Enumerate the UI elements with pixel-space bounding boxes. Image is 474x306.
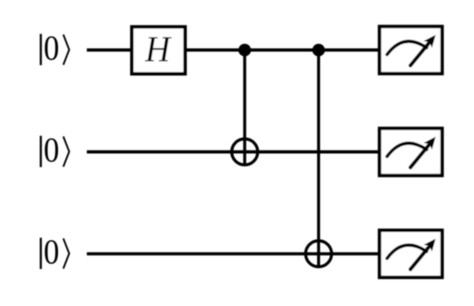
CNOT2 target circle on q2	[306, 241, 332, 267]
control dot CNOT2 on q0	[312, 44, 325, 57]
vertical wire CNOT1 (q0 to q1)	[243, 50, 246, 166]
H gate letter H	[145, 37, 172, 61]
wire q0 right segment	[184, 48, 382, 51]
measurement box M0	[380, 27, 443, 74]
CNOT1 target circle on q1	[232, 139, 258, 165]
measurement box M2	[380, 230, 443, 277]
ket |0> qubit q0	[41, 34, 69, 65]
ket |0> qubit q1	[41, 136, 69, 167]
wire q2	[87, 252, 381, 255]
control dot CNOT1 on q0	[238, 44, 251, 57]
measurement box M1	[380, 128, 443, 175]
H gate box	[132, 27, 185, 74]
wire q0 left segment	[87, 48, 133, 51]
vertical wire CNOT2 (q0 to q2)	[317, 50, 320, 267]
wire q1	[87, 150, 381, 153]
ket |0> qubit q2	[41, 238, 69, 269]
H gate frame	[132, 27, 185, 74]
